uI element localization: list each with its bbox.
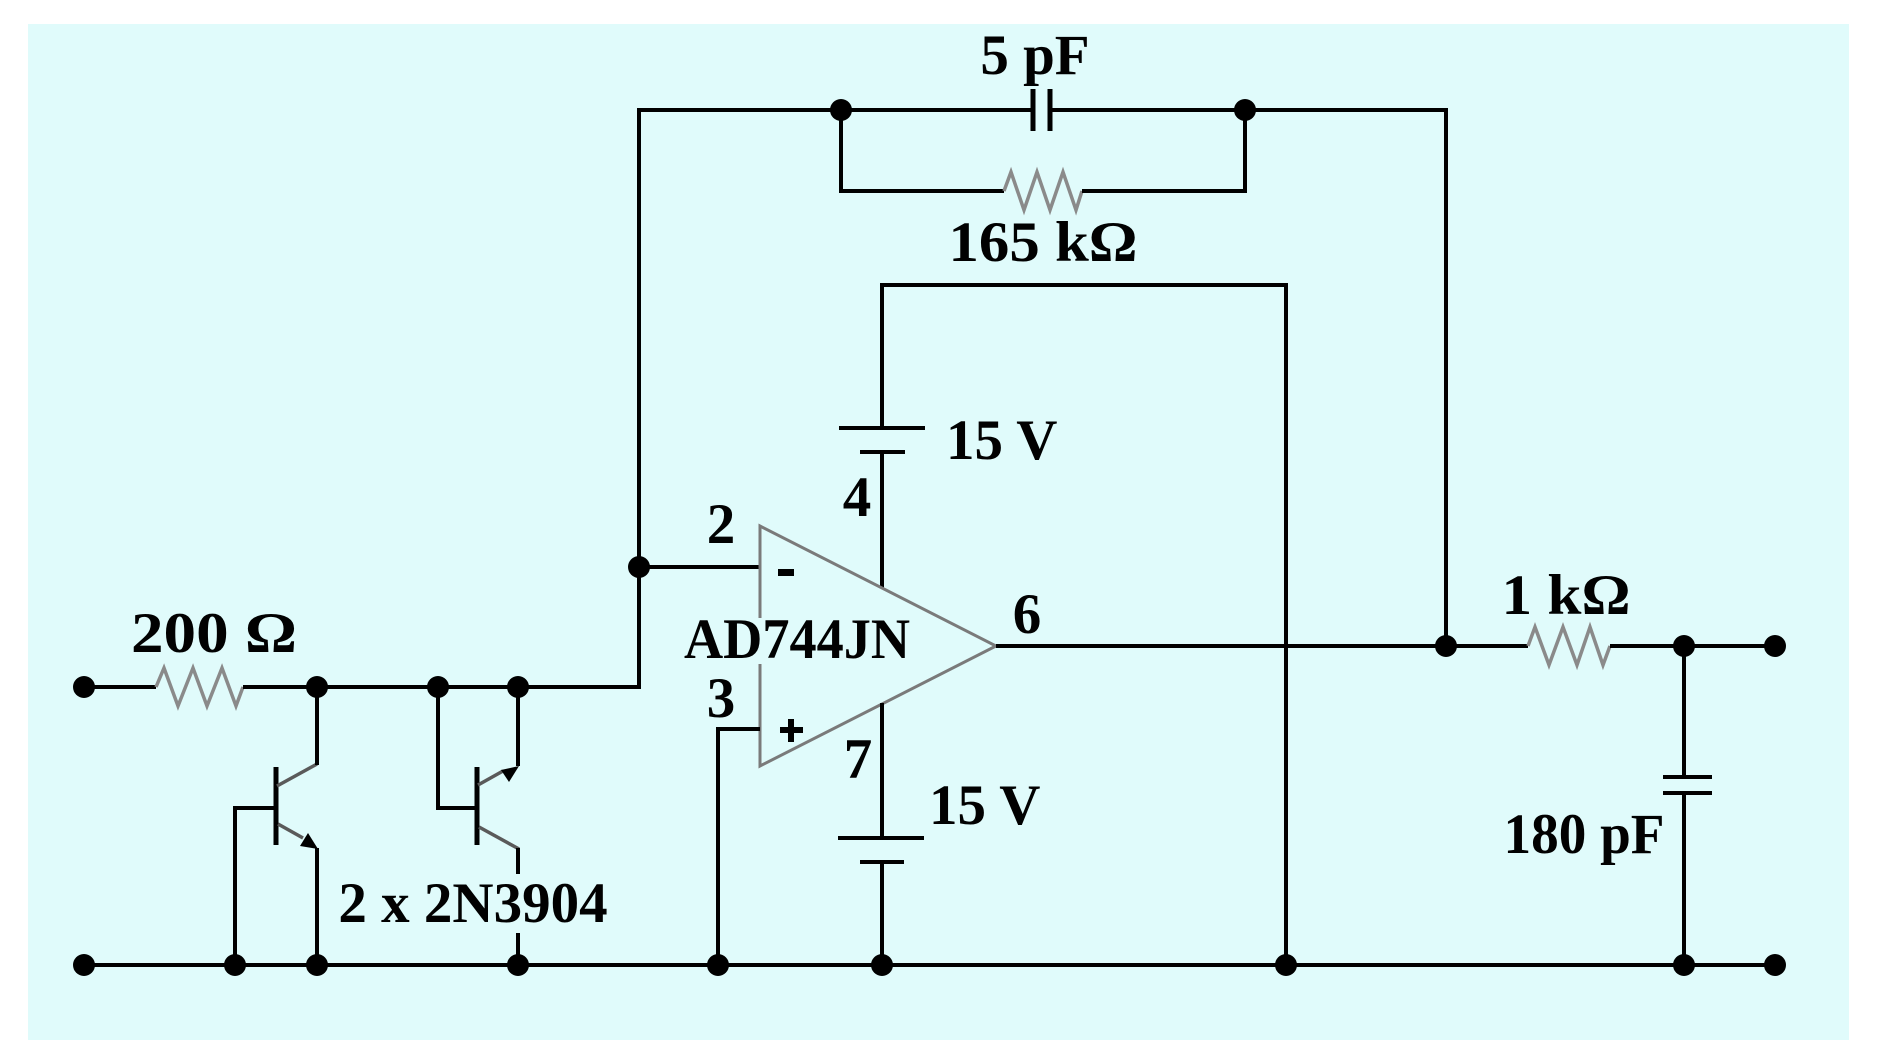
wire: Q2 emitter up [516, 687, 520, 766]
svg-text:6: 6 [1013, 583, 1042, 646]
svg-text:1 kΩ: 1 kΩ [1502, 564, 1631, 627]
capacitor C1 5 pF plates [1031, 89, 1036, 131]
node: rail end left [73, 954, 95, 976]
resistor R1 165 kOhm zigzag [1004, 172, 1082, 210]
wire: pin 2 stub [637, 565, 760, 569]
svg-text:AD744JN: AD744JN [684, 608, 910, 671]
svg-text:2 x 2N3904: 2 x 2N3904 [338, 872, 607, 935]
node: rail dot Q1 emitter [306, 954, 328, 976]
wire: 165k branch right rise [1082, 110, 1245, 191]
node: 1k/180pF junction [1673, 635, 1695, 657]
node: rail dot Q1 base [224, 954, 246, 976]
transistor Q2 emitter arrow [501, 766, 519, 782]
wire: output to 1k [1446, 644, 1528, 648]
svg-text:15 V: 15 V [946, 409, 1057, 472]
svg-text:5 pF: 5 pF [980, 24, 1089, 87]
wire: bottom rail [84, 963, 1775, 967]
transistor Q1 emitter diagonal [278, 824, 303, 838]
node: input line dot at Q1 collector [306, 676, 328, 698]
op-amp minus sign [778, 569, 794, 576]
node: rail dot pin3 [707, 954, 729, 976]
svg-text:4: 4 [843, 466, 872, 529]
wire: Q2 collector down (below label) [516, 933, 520, 965]
op-amp plus sign [780, 727, 803, 733]
wire: Q2 collector down (above label) [516, 848, 520, 874]
wire: Q1 base lead [235, 808, 276, 965]
wire: 165k branch left drop [841, 110, 1004, 191]
svg-text:180 pF: 180 pF [1504, 803, 1665, 866]
node: output/feedback junction [1435, 635, 1457, 657]
node: input line dot at Q2 emitter [507, 676, 529, 698]
transistor Q2 base bar [475, 767, 480, 845]
node: feedback dot right [1234, 99, 1256, 121]
transistor Q1 emitter arrow [300, 833, 318, 849]
transistor Q2 collector diagonal [479, 827, 519, 849]
node: inverting input junction [628, 556, 650, 578]
battery B1 +15V long plate [839, 426, 925, 430]
node: rail end right [1764, 954, 1786, 976]
svg-text:3: 3 [707, 667, 736, 730]
wire: 1k to output terminal [1610, 644, 1775, 648]
wire: 180pF bottom lead [1682, 793, 1686, 965]
op-amp U1 triangle [760, 526, 996, 766]
node: input terminal [73, 676, 95, 698]
wire: input horizontal left of 200 ohm [84, 685, 156, 689]
wire: input horizontal right of 200 ohm [243, 685, 641, 689]
svg-text:165 kΩ: 165 kΩ [949, 211, 1138, 274]
node: rail dot battery B2 [871, 954, 893, 976]
svg-text:7: 7 [844, 728, 873, 791]
wire: feedback left vertical [637, 108, 641, 567]
wire: battery B2 to rail [880, 862, 884, 965]
wire: top feedback horizontal (left of 5pF) [637, 108, 1033, 112]
node: rail dot V+ return [1275, 954, 1297, 976]
transistor Q1 base bar [274, 767, 279, 845]
resistor R2 200 Ohm zigzag [156, 668, 243, 706]
wire: Q1 emitter down [315, 848, 319, 965]
wire: pin 7 [880, 703, 884, 838]
svg-text:15 V: 15 V [929, 774, 1040, 837]
node: rail dot Q2 collector [507, 954, 529, 976]
wire: 180pF top lead [1682, 646, 1686, 777]
wire: pin 4 [880, 452, 884, 588]
battery B2 -15V long plate [838, 836, 924, 840]
node: input line dot at Q2 base [427, 676, 449, 698]
wire: Q1 collector up [315, 687, 319, 765]
wire: pin 3 stub [718, 729, 760, 965]
transistor Q2 emitter diagonal [478, 771, 503, 785]
wire: top feedback horizontal (right of 5pF) [1050, 108, 1448, 112]
wire: feedback right vertical [1444, 108, 1448, 646]
wire: output [996, 644, 1448, 648]
node: output terminal [1764, 635, 1786, 657]
wire: Q2 base lead [438, 687, 477, 808]
wire: input vertical to pin 2 [637, 567, 641, 689]
label AD744JN background [680, 618, 916, 664]
battery B2 -15V short plate [860, 860, 904, 864]
battery B1 +15V short plate [860, 450, 905, 454]
svg-text:200 Ω: 200 Ω [131, 602, 297, 665]
capacitor C2 180 pF plates [1663, 775, 1712, 779]
node: rail dot 180pF [1673, 954, 1695, 976]
node: feedback dot left [830, 99, 852, 121]
resistor R3 1 kOhm zigzag [1528, 627, 1610, 665]
transistor Q1 collector diagonal [277, 764, 317, 786]
svg-text:2: 2 [707, 493, 736, 556]
wire: V+ loop (battery top to right drop) [882, 285, 1286, 965]
